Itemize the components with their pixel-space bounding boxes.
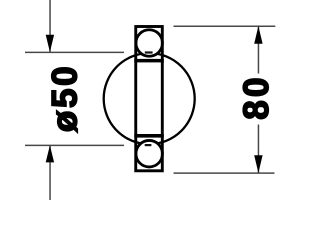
svg-text:ø50: ø50 bbox=[46, 64, 85, 132]
svg-text:80: 80 bbox=[237, 74, 276, 120]
